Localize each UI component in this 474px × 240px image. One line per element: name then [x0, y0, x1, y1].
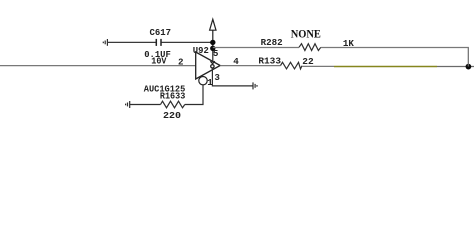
svg-text:NONE: NONE: [291, 27, 321, 41]
resistor R282: [299, 44, 321, 51]
power symbol VCC arrow: [210, 19, 216, 42]
wire U92 pin4 out: [220, 65, 280, 67]
pin5 power arrowhead inside: [210, 61, 214, 64]
junction (right): [466, 64, 472, 70]
wire C617 to VCC line: [162, 41, 213, 43]
wire pin3 to ground: [212, 68, 252, 86]
wire to right junction: [437, 66, 474, 68]
pin3 ground glyph inside: [211, 65, 214, 68]
wire VCC vertical to pin 5: [212, 42, 214, 61]
bubble pin 1 (OE): [199, 77, 207, 85]
junction (VCC / C617): [210, 40, 215, 45]
wire vertical right: [467, 48, 469, 67]
wire net input to U92 pin 2: [0, 65, 196, 67]
wire ground to R1633: [130, 104, 161, 106]
svg-text:3: 3: [214, 72, 220, 83]
wire pin1 to R1633: [185, 85, 203, 105]
svg-text:220: 220: [163, 110, 181, 121]
resistor R1633: [161, 101, 185, 108]
capacitor C617: [156, 39, 161, 46]
wire ground to C617: [107, 41, 155, 43]
svg-text:2: 2: [178, 56, 184, 67]
svg-text:R282: R282: [261, 37, 283, 48]
wire VCC to R282: [213, 47, 299, 49]
buffer U92: [196, 52, 221, 79]
resistor R133: [281, 62, 303, 69]
svg-text:R133: R133: [258, 55, 281, 66]
ground (R1633): [126, 101, 130, 108]
svg-text:U92: U92: [193, 45, 209, 56]
wire R133 right: [302, 65, 334, 67]
svg-text:R1633: R1633: [160, 90, 186, 101]
wire R282 to right corner: [321, 47, 469, 49]
svg-text:22: 22: [302, 56, 313, 67]
svg-text:C617: C617: [150, 27, 172, 38]
ground (left of C617): [103, 39, 107, 46]
ground (pin3): [253, 82, 257, 89]
svg-text:10V: 10V: [151, 56, 167, 67]
wire highlighted net segment: [334, 66, 437, 68]
svg-text:5: 5: [213, 48, 219, 59]
junction (VCC / R282): [210, 46, 215, 51]
